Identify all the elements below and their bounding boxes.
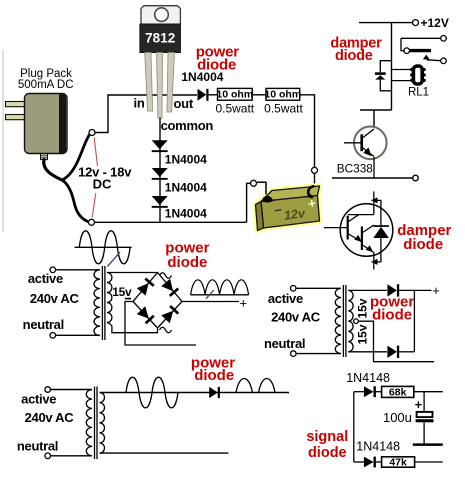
svg-text:BC338: BC338 (337, 162, 374, 176)
leg out (167, 53, 175, 113)
series diode D4 1N4004 (152, 196, 168, 205)
series diode D2 1N4004 (159, 118, 161, 223)
svg-text:neutral: neutral (17, 438, 58, 453)
node neutral 2 (291, 351, 297, 357)
node +12V (413, 20, 419, 26)
svg-text:240v AC: 240v AC (25, 410, 75, 425)
emitter lead (373, 252, 375, 270)
node neutral 1 (50, 333, 56, 339)
bridge diode B2 (161, 279, 178, 296)
node neutral 3 (45, 453, 51, 459)
blue marker 2 (206, 290, 214, 299)
diode D10 1N4148 (364, 457, 374, 468)
bottom branch (354, 461, 364, 463)
svg-text:diode: diode (308, 445, 347, 461)
svg-text:active: active (28, 271, 63, 286)
glow (256, 186, 320, 231)
bridge diode B1 (137, 278, 154, 295)
prong 2 (6, 115, 26, 120)
svg-text:diode: diode (167, 254, 207, 271)
series diode D3 1N4004 (152, 168, 168, 177)
svg-text:7812: 7812 (145, 30, 175, 45)
svg-text:DC: DC (93, 177, 112, 192)
node active 1 (50, 267, 56, 273)
transformer T2 (335, 288, 341, 353)
leg in (145, 53, 153, 112)
svg-text:neutral: neutral (23, 317, 64, 332)
node battery + (312, 167, 318, 173)
faint left border artifact (2, 50, 4, 232)
clip left (257, 182, 266, 194)
svg-text:10 ohm: 10 ohm (264, 89, 301, 101)
svg-text:diode: diode (194, 367, 234, 384)
svg-text:1N4004: 1N4004 (181, 70, 223, 84)
top branch (354, 391, 364, 393)
svg-text:+: + (415, 398, 422, 412)
damper diode D5 across coil (380, 61, 391, 91)
~ top (160, 273, 172, 279)
svg-text:diode: diode (403, 236, 443, 253)
wire to battery + (300, 95, 315, 168)
svg-text:diode: diode (335, 48, 373, 64)
internal damper diode branch (374, 200, 381, 262)
collector lead (348, 192, 374, 215)
power diode D1 (198, 89, 207, 101)
svg-text:0.5watt: 0.5watt (215, 101, 254, 115)
svg-text:+12V: +12V (421, 16, 449, 30)
wire out to resistors (209, 94, 218, 96)
svg-text:+: + (240, 296, 248, 311)
relay contact arm (401, 38, 441, 50)
svg-text:active: active (21, 391, 56, 406)
wire: bottom negative rail (95, 221, 247, 223)
svg-text:500mA DC: 500mA DC (18, 79, 74, 91)
wire between resistors (252, 94, 266, 96)
plug pack PS1 (6, 94, 90, 222)
svg-text:100u: 100u (383, 410, 412, 425)
svg-text:out: out (174, 96, 194, 111)
body (25, 94, 68, 154)
svg-text:1N4004: 1N4004 (165, 180, 207, 194)
clip right (308, 186, 314, 197)
black package body (140, 24, 181, 52)
svg-text:RL1: RL1 (408, 86, 429, 98)
svg-text:240v AC: 240v AC (30, 291, 80, 306)
cord (44, 160, 62, 180)
resistor R1 10ohm (218, 88, 253, 100)
left face (256, 202, 264, 231)
diode D6 (387, 284, 397, 296)
resistor R3 68k (382, 386, 414, 397)
red leader line bottom (92, 193, 96, 218)
output waveform (191, 294, 249, 296)
transformer T3 (86, 390, 92, 456)
regulator U1 7812 (140, 6, 181, 118)
diode D9 1N4148 (364, 386, 374, 397)
svg-text:12v: 12v (283, 206, 306, 223)
svg-text:10 ohm: 10 ohm (216, 89, 253, 101)
svg-text:+: + (432, 283, 440, 298)
dark right band (59, 94, 66, 154)
svg-text:neutral: neutral (264, 336, 305, 351)
sine wave 1 (75, 246, 132, 248)
resistor R2 10ohm (266, 88, 300, 100)
diode D8 (209, 387, 218, 398)
svg-text:0.5watt: 0.5watt (264, 101, 303, 115)
minus mark (125, 298, 131, 300)
metal tab (141, 6, 180, 24)
bottom wire (100, 452, 229, 454)
diode D7 (387, 346, 397, 358)
node: DC - terminal (89, 219, 95, 225)
centre tap (354, 319, 359, 324)
darlington damper diode symbol (324, 192, 393, 270)
svg-text:1N4148: 1N4148 (356, 439, 400, 453)
node battery - (251, 180, 257, 186)
+12V rail wire (359, 22, 413, 24)
battery BT1 12v (256, 182, 320, 230)
svg-text:signal: signal (306, 429, 348, 445)
bridge wiring (107, 273, 182, 329)
svg-text:47k: 47k (389, 456, 407, 468)
output wire with sine (100, 392, 290, 394)
T2 (361, 227, 363, 251)
relay coil RL1 (392, 70, 412, 81)
svg-text:1N4004: 1N4004 (165, 207, 207, 221)
half-wave bumps (236, 378, 252, 392)
node: DC + terminal (89, 130, 95, 136)
wire battery - to rail (247, 183, 251, 222)
BC338 transistor Q1 (360, 110, 392, 127)
transformer T1 (94, 270, 100, 336)
capacitor C1 100u (423, 392, 425, 412)
node active 2 (290, 286, 296, 292)
T1 (347, 216, 349, 240)
mounting hole (155, 8, 169, 22)
~ bottom (160, 327, 172, 333)
blue marker 1 (107, 252, 120, 267)
wires + diodes (348, 289, 387, 291)
bridge diode B4 (161, 306, 178, 323)
svg-text:diode: diode (372, 306, 412, 323)
svg-text:1N4004: 1N4004 (165, 152, 207, 166)
emitter wire (332, 177, 413, 179)
top face (261, 186, 320, 202)
svg-text:common: common (161, 118, 214, 133)
contact arrow (423, 55, 430, 60)
svg-text:active: active (268, 291, 303, 306)
svg-text:in: in (134, 96, 145, 111)
cord nub (41, 154, 48, 160)
svg-text:1N4148: 1N4148 (346, 371, 390, 385)
prong 1 (6, 102, 26, 107)
svg-text:15v: 15v (356, 324, 370, 344)
front face (261, 196, 320, 229)
node active 3 (45, 387, 51, 393)
svg-text:15v: 15v (112, 285, 132, 299)
svg-text:240v AC: 240v AC (271, 309, 321, 324)
wire: plugpack + to regulator in (95, 95, 197, 133)
red leader line top (94, 138, 97, 167)
resistor R4 47k (382, 457, 415, 467)
bridge diode B3 (137, 306, 154, 323)
leg common (157, 53, 163, 119)
svg-text:15v: 15v (356, 298, 370, 318)
svg-text:68k: 68k (389, 387, 407, 399)
main vertical rail (391, 23, 393, 110)
